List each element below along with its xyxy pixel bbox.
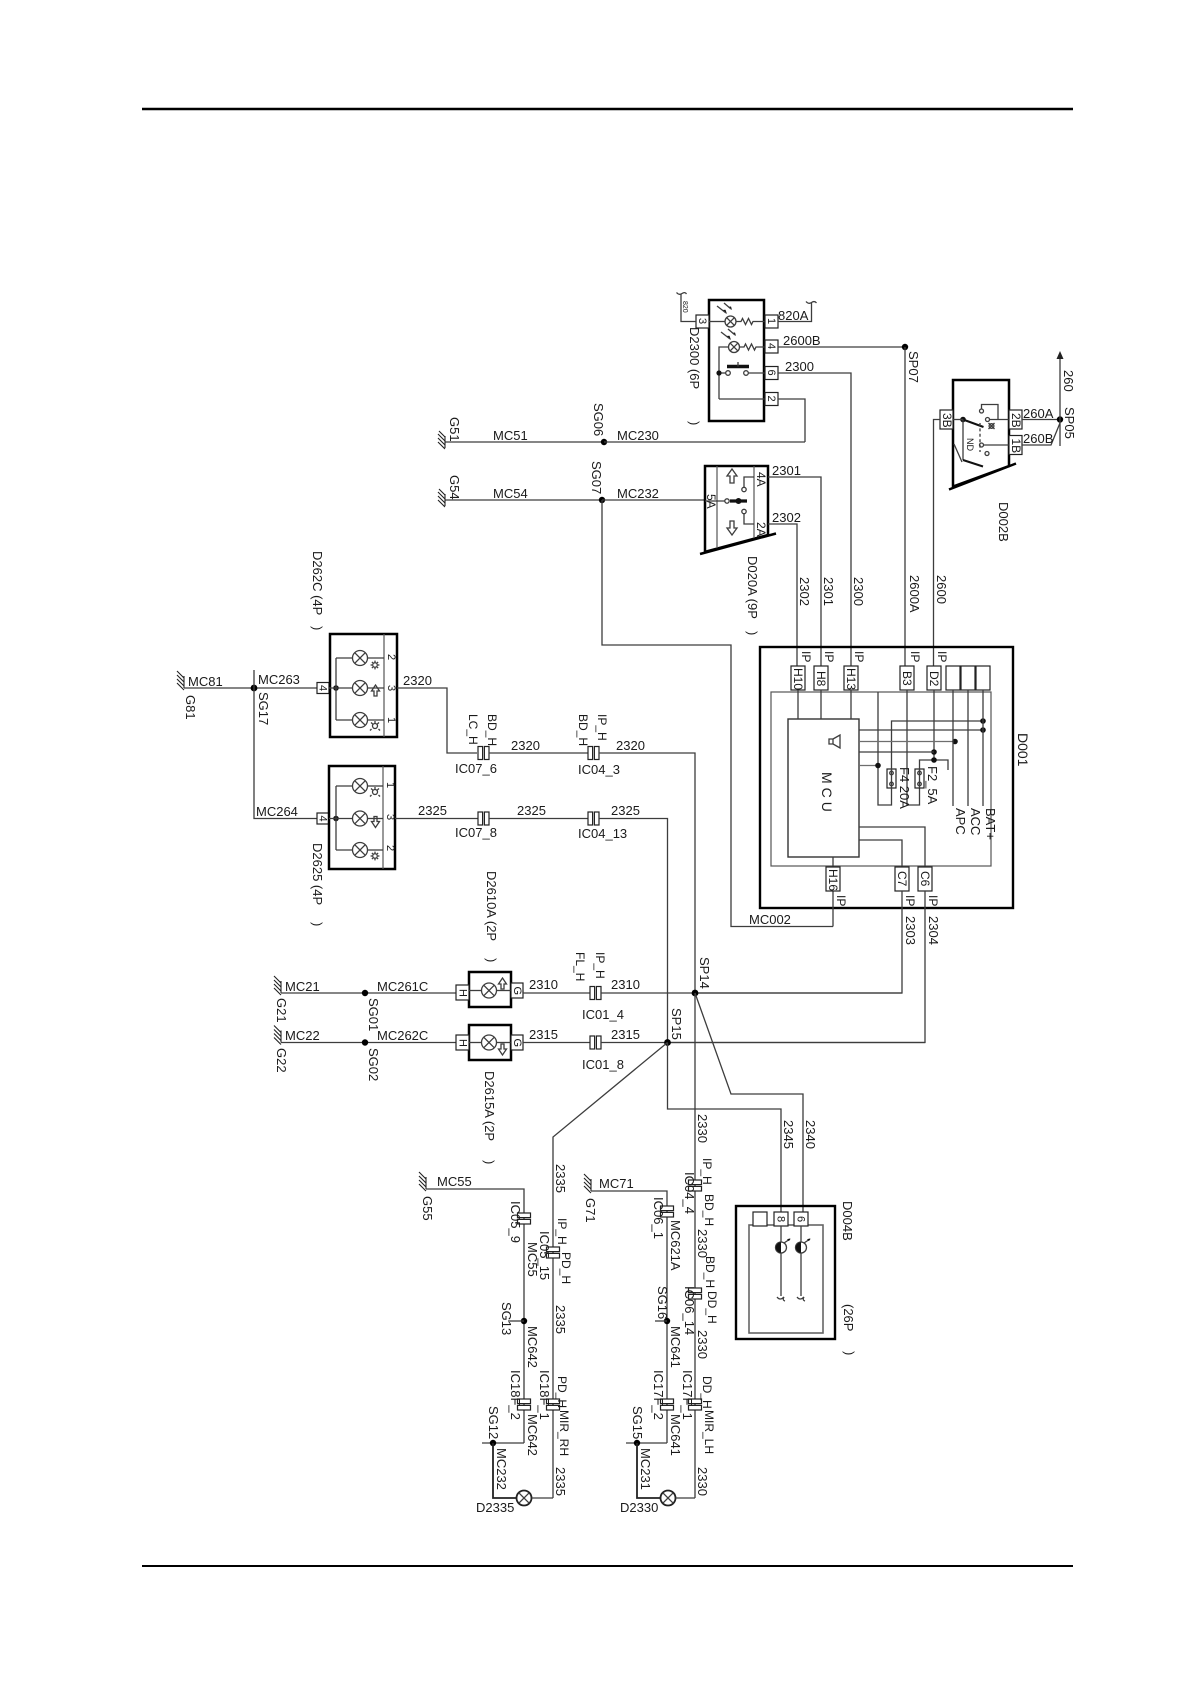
- svg-text:2335: 2335: [553, 1467, 568, 1496]
- pin 2B of D002B: [1009, 410, 1022, 429]
- svg-text:2320: 2320: [403, 673, 432, 688]
- wire 2320 mid: [489, 752, 588, 754]
- connector IC07_8: [478, 812, 489, 825]
- pin 6 of D2300: [765, 367, 778, 380]
- offpage curl 820 (top-left): [677, 293, 687, 295]
- svg-text:IP_H: IP_H: [593, 952, 607, 979]
- svg-text:MC55: MC55: [437, 1174, 472, 1189]
- svg-text:H16: H16: [826, 869, 840, 891]
- wire 2600 from 3B down to D001: [934, 420, 941, 667]
- splice SG01: [362, 990, 368, 996]
- svg-text:IC05_15: IC05_15: [537, 1231, 552, 1280]
- D001 inner board: [771, 692, 991, 866]
- svg-text:IC04_4: IC04_4: [682, 1172, 697, 1214]
- splice SP05: [1057, 416, 1063, 422]
- svg-text:2315: 2315: [611, 1027, 640, 1042]
- svg-text:2330: 2330: [695, 1229, 710, 1258]
- svg-text:MC81: MC81: [188, 674, 223, 689]
- connector IC17F_2: [661, 1399, 674, 1410]
- wire 820A: [778, 303, 812, 322]
- MCU stub to C7: [859, 840, 902, 867]
- svg-text:(26P: (26P: [841, 1304, 856, 1331]
- svg-text:MC263: MC263: [258, 672, 300, 687]
- MCU block: [788, 719, 859, 857]
- pin 3 of D2300: [696, 315, 709, 328]
- pin H of D2610A: [456, 985, 469, 1000]
- svg-text:8: 8: [775, 1216, 787, 1222]
- svg-text:2301: 2301: [772, 463, 801, 478]
- wire MC231 to lamp D2330: [637, 1443, 661, 1498]
- svg-text:IP: IP: [852, 651, 866, 662]
- svg-text:): ): [484, 958, 499, 962]
- svg-text:2330: 2330: [695, 1467, 710, 1496]
- wire 2310 to C7 leg: [601, 992, 902, 994]
- switch inside D002B: [960, 417, 966, 423]
- svg-text:SG01: SG01: [366, 998, 381, 1031]
- pin G of D2615A: [511, 1035, 523, 1050]
- svg-text:2303: 2303: [903, 916, 918, 945]
- wire MC71: [591, 1191, 667, 1443]
- svg-text:MC261C: MC261C: [377, 979, 428, 994]
- MCU bottom to H16: [832, 857, 834, 927]
- MCU stub to BAT+: [859, 729, 983, 731]
- svg-text:2300: 2300: [785, 359, 814, 374]
- down arrow icon: [499, 1044, 507, 1055]
- svg-text:PD_H: PD_H: [555, 1376, 569, 1408]
- MCU stub to APC: [859, 741, 955, 743]
- splice SG06: [601, 439, 607, 445]
- svg-text:IP_H: IP_H: [700, 1158, 714, 1185]
- svg-text:2600A: 2600A: [907, 575, 922, 613]
- svg-text:ACC: ACC: [968, 808, 983, 835]
- wire MC55: [426, 1189, 524, 1443]
- pin H10: [791, 666, 805, 690]
- offpage curl 820A: [806, 302, 817, 304]
- resistor lower inside D2300: [740, 344, 766, 350]
- svg-text:3: 3: [384, 814, 396, 820]
- svg-text:IC17F_2: IC17F_2: [651, 1370, 666, 1420]
- svg-text:D2300 (6P: D2300 (6P: [687, 327, 702, 389]
- sun icon row3: [371, 852, 380, 861]
- svg-text:F4 20A: F4 20A: [897, 767, 912, 809]
- svg-text:2304: 2304: [926, 916, 941, 945]
- svg-text:2: 2: [385, 654, 397, 660]
- wire D2 column: [933, 690, 935, 760]
- lamp bulb D2625 row2: [353, 811, 368, 826]
- connector IC18F_2: [518, 1399, 531, 1410]
- svg-text:H10: H10: [791, 668, 805, 690]
- svg-text:4: 4: [317, 685, 329, 691]
- wire 260B: [1022, 423, 1060, 445]
- illumination arrows upper lamp: [722, 310, 727, 314]
- pin H of D2615A: [456, 1035, 469, 1050]
- connector IC05_9: [518, 1213, 531, 1224]
- svg-text:SG13: SG13: [499, 1302, 514, 1335]
- svg-text:SG15: SG15: [630, 1406, 645, 1439]
- svg-text:D004B: D004B: [840, 1201, 855, 1241]
- svg-text:2310: 2310: [611, 977, 640, 992]
- svg-text:SG07: SG07: [589, 461, 604, 494]
- wire H8 to MCU: [820, 690, 822, 719]
- wire B3 down: [907, 690, 920, 805]
- pin 3B of D002B: [940, 410, 953, 429]
- lamp bulb D262C row1: [353, 651, 368, 666]
- parking light icon row3: [370, 721, 380, 731]
- wire 2300 horizontal: [778, 373, 851, 666]
- svg-text:G55: G55: [420, 1196, 435, 1221]
- D002B slant edge: [949, 464, 1016, 490]
- splice SG15: [626, 1442, 667, 1444]
- svg-text:SP14: SP14: [697, 957, 712, 989]
- parking light icon: [370, 787, 380, 797]
- wire 2315 to C6 leg: [601, 1042, 925, 1044]
- pushbutton switch inside D2300: [716, 370, 721, 375]
- svg-text:2345: 2345: [781, 1120, 796, 1149]
- connector IC06_1: [661, 1206, 674, 1217]
- lamp D2615A (2P) body: [469, 1025, 511, 1060]
- svg-text:6: 6: [795, 1216, 807, 1222]
- wire SP15 to 2335 chain: [553, 1043, 668, 1499]
- wire pin2 to MC230 corner: [778, 399, 805, 442]
- pin 1B of D002B: [1009, 436, 1022, 455]
- svg-text:2335: 2335: [553, 1164, 568, 1193]
- svg-text:MC21: MC21: [285, 979, 320, 994]
- svg-text:): ): [482, 1160, 497, 1164]
- wire lower lamp to internal bus: [719, 347, 729, 399]
- lamp bulb D2615A: [482, 1035, 497, 1050]
- svg-text:820A: 820A: [778, 308, 809, 323]
- svg-text:G51: G51: [447, 417, 462, 442]
- svg-text:2325: 2325: [517, 803, 546, 818]
- svg-text:H8: H8: [814, 671, 828, 687]
- svg-text:D2615A (2P: D2615A (2P: [482, 1071, 497, 1141]
- resistor upper inside D2300: [736, 319, 765, 325]
- svg-text:D020A (9P: D020A (9P: [745, 556, 760, 619]
- svg-text:MC71: MC71: [599, 1176, 634, 1191]
- svg-text:2301: 2301: [821, 577, 836, 606]
- motor 1 in D004B: [780, 1226, 782, 1242]
- wire 2304: [668, 891, 926, 1043]
- splice SP14: [692, 990, 699, 997]
- svg-text:2B: 2B: [1009, 413, 1023, 428]
- connector D002B body: [953, 380, 1009, 487]
- MCU stub to D2 column: [859, 751, 934, 753]
- ECU D001 outer body: [760, 647, 1013, 908]
- svg-text:): ): [687, 421, 702, 425]
- lamp (LED) upper inside D2300: [725, 316, 736, 327]
- svg-text:IP: IP: [908, 651, 922, 662]
- svg-text:D001: D001: [1015, 733, 1031, 767]
- up arrow icon: [499, 978, 507, 989]
- svg-text:H: H: [457, 989, 469, 997]
- svg-text:820: 820: [681, 301, 688, 313]
- svg-text:SG17: SG17: [256, 692, 271, 725]
- svg-text:MC231: MC231: [638, 1448, 653, 1490]
- svg-text:MC232: MC232: [617, 486, 659, 501]
- svg-text:G71: G71: [583, 1198, 598, 1223]
- svg-text:BD_H: BD_H: [703, 1256, 717, 1288]
- svg-text:MC54: MC54: [493, 486, 528, 501]
- fuse F2_5A: [915, 769, 924, 788]
- BAT+ pin column: [982, 690, 984, 806]
- pin G of D2610A: [511, 983, 523, 998]
- svg-text:IC04_13: IC04_13: [578, 826, 627, 841]
- svg-text:LC_H: LC_H: [466, 714, 480, 745]
- lamp bulb D262C row3: [353, 713, 368, 728]
- ground G54: [438, 489, 452, 507]
- pin 4 of D2625: [317, 813, 329, 824]
- pin H8: [814, 666, 828, 690]
- svg-text:IP: IP: [834, 895, 848, 906]
- connector IC05_15: [547, 1247, 560, 1258]
- ground G55: [419, 1172, 426, 1191]
- svg-text:IC06_14: IC06_14: [682, 1286, 697, 1335]
- svg-text:2320: 2320: [511, 738, 540, 753]
- svg-text:IC06_1: IC06_1: [651, 1197, 666, 1239]
- svg-text:FL_H: FL_H: [573, 952, 587, 981]
- svg-text:): ): [310, 626, 325, 630]
- wire 2330 bottom into lamp: [676, 1497, 696, 1499]
- lamp bulb D2625 row1: [353, 779, 368, 794]
- svg-text:SG12: SG12: [486, 1406, 501, 1439]
- svg-text:SP07: SP07: [906, 351, 921, 383]
- svg-text:IC18F_1: IC18F_1: [537, 1370, 552, 1420]
- svg-text:260: 260: [1061, 370, 1076, 392]
- svg-text:D2335: D2335: [476, 1500, 514, 1515]
- svg-text:1: 1: [385, 717, 397, 723]
- wire F4 top to BAT+: [892, 721, 984, 769]
- svg-text:2A: 2A: [754, 522, 768, 537]
- internal bus D262C: [333, 685, 339, 691]
- svg-text:2320: 2320: [616, 738, 645, 753]
- connector IC18F_1: [547, 1399, 560, 1410]
- connector D2300 (6P) body: [709, 300, 764, 421]
- connector IC04_4: [689, 1180, 702, 1191]
- svg-text:MC002: MC002: [749, 912, 791, 927]
- ground G51: [438, 431, 452, 449]
- wire 2303: [695, 891, 902, 993]
- svg-text:BAT+: BAT+: [983, 808, 998, 840]
- svg-text:PD_H: PD_H: [559, 1252, 573, 1284]
- rotary switch inside D020A: [705, 500, 725, 502]
- wire 2315: [523, 1042, 590, 1044]
- svg-text:G: G: [511, 1039, 523, 1048]
- svg-text:MC642: MC642: [525, 1414, 540, 1456]
- svg-text:6: 6: [765, 370, 777, 376]
- svg-text:IP: IP: [822, 651, 836, 662]
- svg-text:SP05: SP05: [1062, 407, 1077, 439]
- internal bus wire to pin 2: [719, 398, 765, 400]
- lamp cluster D262C (4P) body: [330, 634, 397, 737]
- bottom rule: [142, 1565, 1073, 1567]
- svg-text:SG16: SG16: [655, 1286, 670, 1319]
- splice SG07: [599, 497, 605, 503]
- svg-text:2325: 2325: [611, 803, 640, 818]
- connector D004B body: [736, 1206, 835, 1339]
- wire 2310: [523, 992, 590, 994]
- down arrow icon row2: [372, 817, 380, 828]
- svg-text:G21: G21: [274, 998, 289, 1023]
- svg-text:IC01_4: IC01_4: [582, 1007, 624, 1022]
- svg-text:SG02: SG02: [366, 1048, 381, 1081]
- connector IC01_8: [590, 1036, 601, 1049]
- svg-text:): ): [745, 631, 760, 635]
- svg-text:G: G: [511, 987, 523, 996]
- ACC pin column: [967, 690, 969, 806]
- pin 4 of D2300: [765, 340, 778, 353]
- svg-text:2300: 2300: [851, 577, 866, 606]
- svg-text:IP_H: IP_H: [595, 714, 609, 741]
- wire 2320 from D262C: [397, 688, 477, 753]
- ground G22: [274, 1026, 281, 1045]
- connector IC04_13: [588, 812, 599, 825]
- lower switch contacts inside D002B: [962, 420, 964, 461]
- svg-text:2330: 2330: [695, 1330, 710, 1359]
- wire MC230: [604, 441, 805, 443]
- connector IC06_14: [689, 1288, 702, 1299]
- svg-text:MCU: MCU: [819, 772, 835, 816]
- svg-text:2340: 2340: [803, 1120, 818, 1149]
- wire 2600A vertical: [904, 347, 906, 666]
- svg-text:IP: IP: [799, 651, 813, 662]
- lamp D2610A (2P) body: [469, 972, 511, 1007]
- svg-text:H13: H13: [844, 668, 858, 690]
- ground G21: [274, 976, 281, 995]
- svg-text:G54: G54: [447, 475, 462, 500]
- wire SP15 to D004B pin 8: [668, 1043, 782, 1213]
- svg-text:3: 3: [385, 685, 397, 691]
- wire SP14 to D004B pin 6: [695, 993, 803, 1212]
- wire MC232 run to H16 (left of D001): [602, 500, 833, 927]
- operating rod: [954, 444, 962, 462]
- wire from pin 3 to offpage connector 820: [681, 294, 696, 322]
- svg-text:MC264: MC264: [256, 804, 298, 819]
- wire MC232 to lamp D2335: [493, 1443, 517, 1498]
- svg-text:2: 2: [384, 845, 396, 851]
- wire 260A: [1022, 419, 1060, 421]
- lamp (LED) lower inside D2300: [729, 342, 740, 353]
- wire 2301: [768, 477, 821, 666]
- svg-text:2330: 2330: [695, 1114, 710, 1143]
- svg-text:2600B: 2600B: [783, 333, 821, 348]
- pin 6 of D004B: [794, 1212, 808, 1226]
- wire 2302: [768, 524, 797, 666]
- connector IC04_3: [588, 747, 599, 760]
- wire MC51: [452, 441, 604, 443]
- svg-text:): ): [310, 922, 325, 926]
- wire F4 bottom loop: [878, 692, 892, 805]
- pin H13: [844, 666, 858, 690]
- pin B3: [900, 666, 914, 690]
- lamp bulb D2610A: [482, 983, 497, 998]
- splice SP15: [664, 1039, 671, 1046]
- wire MC54: [452, 499, 602, 501]
- lamp icon inside D002B: [989, 424, 994, 429]
- svg-text:IC01_8: IC01_8: [582, 1057, 624, 1072]
- svg-text:4: 4: [317, 816, 329, 822]
- wire F2 top to D2 column: [920, 760, 949, 770]
- spare pin boxes: [946, 666, 960, 690]
- svg-text:2302: 2302: [772, 510, 801, 525]
- splice SG12: [482, 1442, 524, 1444]
- svg-text:2310: 2310: [529, 977, 558, 992]
- wire MC232: [602, 499, 705, 501]
- wire MC22: [281, 1042, 456, 1044]
- svg-text:G81: G81: [183, 695, 198, 720]
- svg-text:2: 2: [765, 396, 777, 402]
- pin 8 of D004B: [774, 1212, 788, 1226]
- svg-text:1: 1: [384, 782, 396, 788]
- internal bus D2625: [333, 816, 339, 822]
- lamp bulb D2625 row3: [353, 843, 368, 858]
- top rule: [142, 108, 1073, 111]
- svg-text:D262C (4P: D262C (4P: [310, 551, 325, 615]
- svg-text:2335: 2335: [553, 1305, 568, 1334]
- svg-text:3: 3: [696, 318, 708, 324]
- svg-text:MC262C: MC262C: [377, 1028, 428, 1043]
- svg-text:MC51: MC51: [493, 428, 528, 443]
- wire 2320 to SP14 column: [599, 753, 695, 993]
- wire 2330 chain from SP14: [694, 993, 696, 1498]
- lamp D2335: [517, 1491, 532, 1506]
- connector IC01_4: [590, 987, 601, 1000]
- svg-text:F2_5A: F2_5A: [925, 766, 940, 805]
- svg-text:1: 1: [765, 318, 777, 324]
- dashed link: [979, 423, 981, 452]
- svg-text:2315: 2315: [529, 1027, 558, 1042]
- blank pin box: [753, 1212, 767, 1226]
- D020A slant edge: [700, 534, 776, 555]
- lamp bulb D262C row2: [353, 681, 368, 696]
- pin 2 of D2300: [765, 393, 778, 406]
- pin D2: [927, 666, 941, 690]
- svg-text:MIR_RH: MIR_RH: [557, 1410, 571, 1456]
- svg-text:): ): [842, 1351, 857, 1355]
- pin 1 of D2300: [765, 315, 778, 328]
- svg-text:BD_H: BD_H: [576, 714, 590, 746]
- wire SG17 to MC264: [254, 688, 317, 819]
- connector D020A (9P) body: [705, 466, 768, 552]
- wire H10 to MCU: [797, 690, 799, 719]
- svg-text:IP: IP: [926, 895, 940, 906]
- pin H16: [826, 867, 840, 891]
- wire 2325 to SP15 column: [599, 819, 668, 1043]
- svg-text:MC641: MC641: [668, 1414, 683, 1456]
- svg-text:D2: D2: [927, 671, 941, 687]
- svg-text:IC07_6: IC07_6: [455, 761, 497, 776]
- svg-text:D002B: D002B: [996, 502, 1011, 542]
- svg-text:ND: ND: [965, 438, 975, 451]
- svg-text:IC07_8: IC07_8: [455, 825, 497, 840]
- svg-text:4A: 4A: [754, 472, 768, 487]
- svg-text:BD_H: BD_H: [485, 714, 499, 746]
- svg-text:DD_H: DD_H: [700, 1376, 714, 1409]
- wire 260 vertical with arrow: [1059, 358, 1061, 446]
- APC pin column: [952, 690, 954, 806]
- wire 2325 mid: [489, 818, 588, 820]
- connector IC17F_1: [689, 1399, 702, 1410]
- ground G71: [584, 1174, 591, 1193]
- svg-text:IP: IP: [935, 651, 949, 662]
- svg-text:DD_H: DD_H: [705, 1291, 719, 1324]
- buzzer icon: [829, 735, 840, 748]
- svg-text:BD_H: BD_H: [702, 1194, 716, 1226]
- svg-text:IC04_3: IC04_3: [578, 762, 620, 777]
- svg-text:2302: 2302: [797, 577, 812, 606]
- svg-text:3B: 3B: [940, 413, 954, 428]
- svg-text:260B: 260B: [1023, 431, 1053, 446]
- fuse F4 20A: [887, 769, 896, 788]
